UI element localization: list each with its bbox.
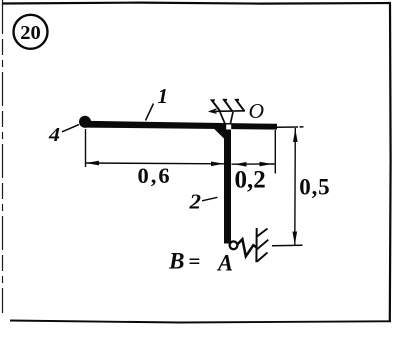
dimension line 0,2 xyxy=(232,163,275,165)
dim 0,6 left arrowhead xyxy=(86,161,100,166)
extension line below ball 4 xyxy=(85,129,87,167)
svg-text:20: 20 xyxy=(20,22,41,44)
task number circle 20 xyxy=(14,15,48,49)
border bottom line xyxy=(10,321,391,323)
svg-text:1: 1 xyxy=(158,84,169,108)
wall line at B xyxy=(255,228,257,262)
pivot pin white square at O xyxy=(226,125,231,130)
dim 0,6 right arrowhead xyxy=(211,162,224,167)
support hatch 3 xyxy=(236,100,245,112)
hinge circle A at rod 2 end xyxy=(230,241,238,249)
support hatch 2 xyxy=(224,100,232,112)
svg-text:O: O xyxy=(249,99,265,123)
svg-text:=: = xyxy=(189,249,201,273)
border right line xyxy=(389,3,392,322)
wall hatch 3 xyxy=(257,253,268,262)
joint fillet at rod junction xyxy=(213,127,226,140)
dimension line 0,6 xyxy=(86,162,225,165)
dim 0,2 right arrowhead xyxy=(260,162,273,167)
bottom reference line for 0,5 xyxy=(272,244,303,246)
border left dashed line xyxy=(2,0,4,313)
dimension line 0,5 vertical xyxy=(294,128,297,246)
rod 2 (vertical bar) xyxy=(224,128,231,244)
leader line for label 4 xyxy=(62,125,79,132)
wall hatch 1 xyxy=(256,229,267,238)
svg-text:0,6: 0,6 xyxy=(138,163,172,188)
support base line at O xyxy=(210,110,245,113)
leader line for label 1 xyxy=(146,104,154,121)
top reference line for 0,5 xyxy=(277,126,304,128)
svg-text:2: 2 xyxy=(188,189,201,213)
svg-text:0,5: 0,5 xyxy=(299,174,330,199)
support pin leg left xyxy=(220,112,225,125)
extension line right of 0,2 xyxy=(274,130,276,174)
svg-text:A: A xyxy=(216,251,233,276)
rod 1 (horizontal bar) xyxy=(84,121,277,130)
dim 0,5 bottom arrowhead xyxy=(293,232,298,246)
zigzag link to wall xyxy=(238,239,257,256)
leader line for label 2 xyxy=(202,197,218,201)
ball 4 (point mass dot) xyxy=(79,116,91,128)
dim 0,2 left arrowhead xyxy=(234,162,247,167)
svg-text:4: 4 xyxy=(48,124,60,146)
support pin leg right xyxy=(230,112,233,125)
dim 0,5 top arrowhead xyxy=(293,129,298,143)
svg-text:B: B xyxy=(168,249,185,274)
wall hatch 2 xyxy=(257,240,269,250)
support base left arrow tick xyxy=(210,109,217,113)
border top line xyxy=(2,3,391,4)
svg-text:0,2: 0,2 xyxy=(235,166,266,193)
support hatch 1 xyxy=(212,100,221,111)
